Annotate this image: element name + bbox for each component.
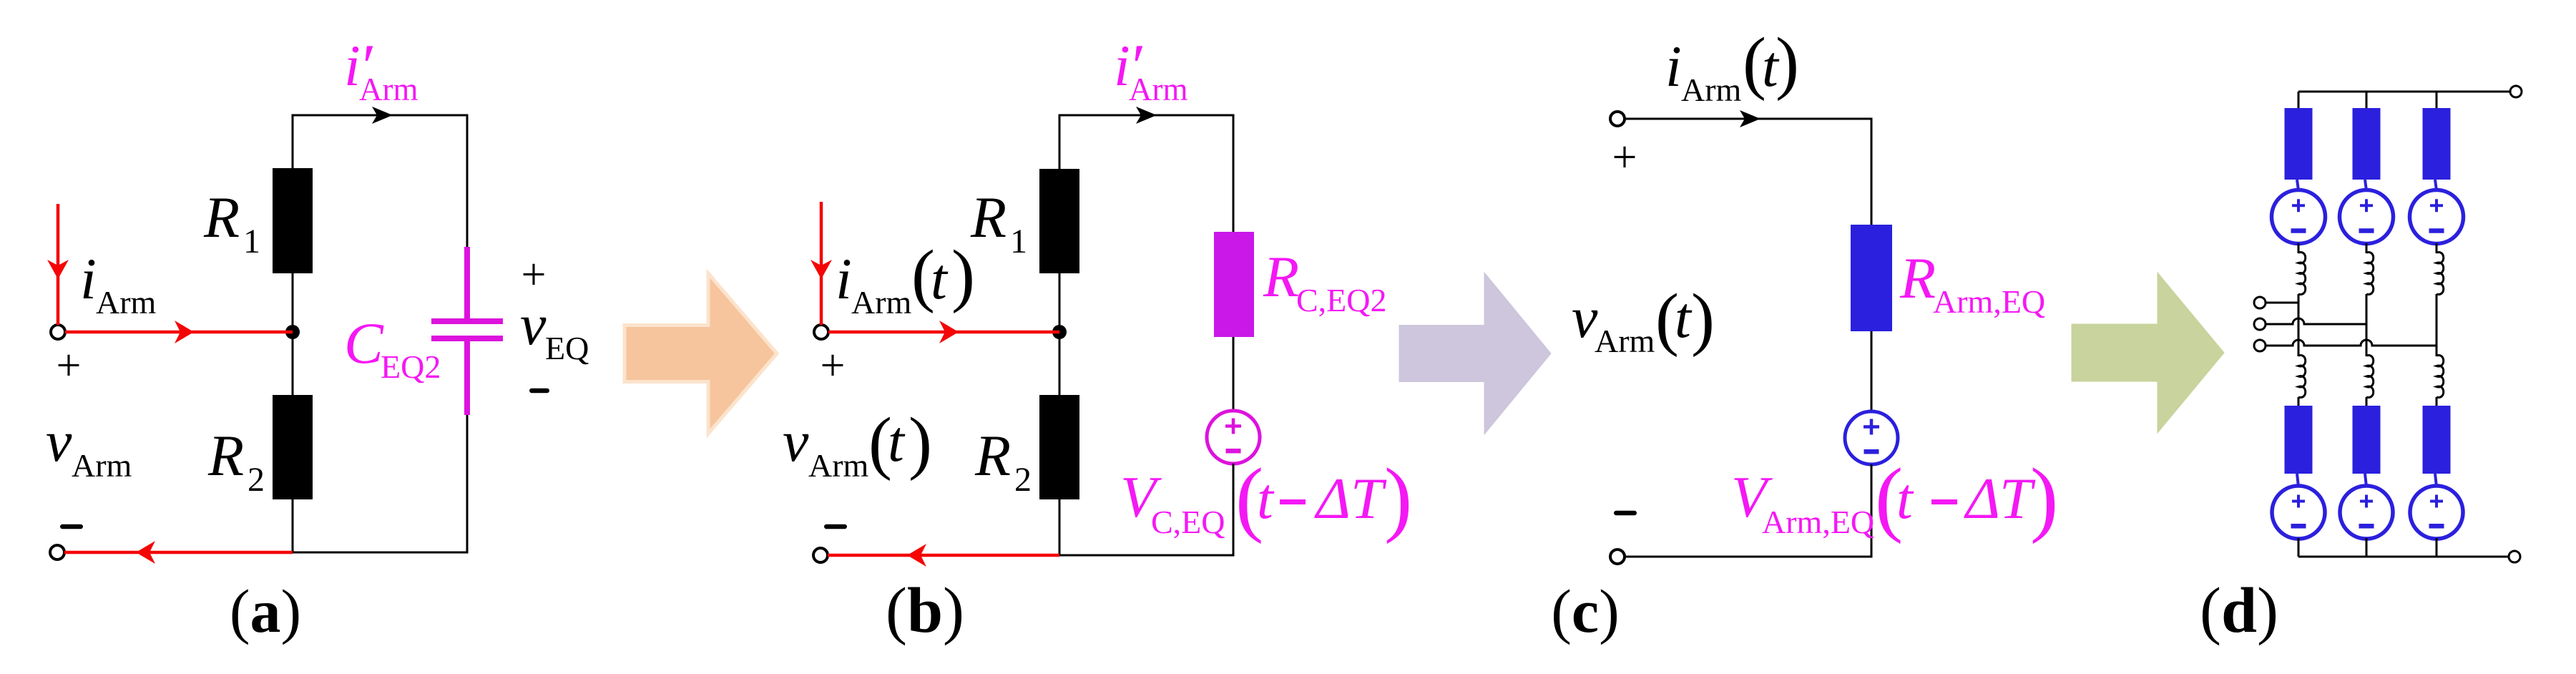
- top wire (c): [1625, 118, 1873, 120]
- terminal input + (c): [1610, 112, 1625, 126]
- label R2 (a): [207, 423, 265, 499]
- SM voltage source lower arm c (d): [2410, 486, 2463, 539]
- svg-text:): ): [2030, 451, 2058, 544]
- svg-text:Arm: Arm: [72, 447, 132, 484]
- wire capacitor branch bottom (a): [466, 415, 469, 552]
- bottom rail (d): [2298, 556, 2509, 558]
- wire right branch top (b): [1233, 115, 1235, 233]
- svg-text:t: t: [931, 246, 949, 311]
- wire source to bottom (b): [1233, 464, 1235, 555]
- wire top horizontal (b): [1059, 114, 1235, 117]
- svg-text:R: R: [974, 423, 1011, 488]
- wire rail to SM rect upper arm b (d): [2366, 92, 2368, 109]
- SM resistor upper arm b (d): [2353, 108, 2381, 180]
- svg-text:Arm,EQ: Arm,EQ: [1933, 283, 2045, 320]
- current arrow i'Arm (b): [1136, 107, 1157, 124]
- wire bottom black (b): [1059, 555, 1235, 557]
- wire coil to SM rect lower arm a (d): [2298, 397, 2300, 406]
- svg-text:(a): (a): [230, 577, 301, 645]
- svg-text:Arm: Arm: [808, 447, 869, 484]
- AC terminal c (d): [2254, 340, 2266, 351]
- label i_Arm (a): [80, 246, 157, 321]
- wire coil to lower section b (d): [2366, 294, 2368, 356]
- wire source to rail lower arm c (d): [2436, 538, 2438, 557]
- terminal input + (b): [814, 325, 828, 339]
- wire top-left vertical (b): [1059, 114, 1061, 170]
- label R1 (b): [970, 185, 1027, 260]
- minus sign vArm (c): [1614, 511, 1637, 516]
- svg-text:+: +: [821, 341, 846, 390]
- green arrow c-to-d: [2072, 273, 2224, 433]
- arm inductor lower c (d): [2437, 356, 2444, 398]
- label VC,EQ(t-dT) (b): [1120, 451, 1412, 544]
- svg-text:R: R: [970, 185, 1007, 250]
- terminal - (b): [813, 548, 828, 562]
- arm inductor lower b (d): [2366, 356, 2374, 398]
- SM resistor upper arm c (d): [2423, 108, 2451, 180]
- svg-text:Arm: Arm: [359, 72, 418, 107]
- wire rect to source upper arm a (d): [2297, 180, 2298, 190]
- wire rail to SM rect upper arm c (d): [2436, 92, 2438, 109]
- svg-text:Arm: Arm: [1595, 323, 1655, 359]
- label i_Arm(t) (b): [836, 236, 975, 321]
- svg-text:Arm: Arm: [96, 284, 157, 321]
- wire source to rail lower arm a (d): [2298, 538, 2300, 557]
- node (a): [285, 325, 300, 339]
- red wire i_Arm input (b): [820, 202, 823, 325]
- red wire to node (b): [828, 331, 1059, 334]
- SM voltage source upper arm b (d): [2340, 190, 2394, 244]
- resistor R1 (a): [273, 168, 313, 273]
- svg-text:1: 1: [1010, 223, 1027, 260]
- svg-text:t: t: [888, 409, 906, 474]
- resistor R1 (b): [1039, 169, 1079, 273]
- svg-text:(d): (d): [2200, 575, 2278, 646]
- label R1 (a): [203, 185, 260, 260]
- label vArm(t) (c): [1572, 280, 1715, 359]
- svg-text:t: t: [1257, 466, 1275, 531]
- AC terminal b (d): [2254, 318, 2266, 330]
- wire R2 to bottom (a): [292, 499, 294, 554]
- wire source to rail lower arm b (d): [2366, 538, 2368, 557]
- wire rect to source (c): [1871, 331, 1873, 412]
- terminal input + (a): [51, 325, 65, 339]
- minus sign vArm (b): [824, 524, 847, 529]
- svg-text:R: R: [1263, 244, 1299, 309]
- wire source to coil upper arm c (d): [2436, 243, 2438, 253]
- wire R2 to bottom (b): [1059, 499, 1061, 557]
- svg-text:i: i: [80, 246, 97, 311]
- top rail (d): [2298, 91, 2510, 93]
- svg-text:C: C: [344, 311, 384, 376]
- bottom wire (c): [1625, 556, 1873, 558]
- label R2 (b): [974, 423, 1032, 499]
- wire capacitor branch top (a): [466, 115, 469, 248]
- svg-text:+: +: [1612, 133, 1637, 182]
- terminal - (c): [1610, 550, 1625, 564]
- node (b): [1052, 325, 1067, 339]
- svg-text:C,EQ: C,EQ: [1151, 504, 1225, 540]
- label iArm(t) (c): [1665, 24, 1799, 108]
- svg-text:+: +: [57, 341, 82, 390]
- svg-text:v: v: [520, 292, 547, 357]
- svg-text:2: 2: [248, 461, 265, 499]
- SM resistor lower arm b (d): [2353, 406, 2381, 474]
- current arrow i'Arm (a): [372, 107, 393, 124]
- current arrow iArm (c): [1740, 110, 1760, 127]
- voltage source VArm,EQ (c): [1845, 411, 1898, 464]
- SM voltage source upper arm c (d): [2410, 190, 2464, 244]
- label i'Arm (a): [344, 32, 418, 107]
- svg-text:t: t: [1896, 466, 1914, 531]
- wire R1 to node to R2 (a): [292, 273, 294, 395]
- minus sign vEQ (a): [529, 389, 549, 394]
- SM voltage source lower arm b (d): [2340, 486, 2393, 539]
- red wire to node (a): [65, 331, 293, 334]
- label RArm,EQ (c): [1899, 245, 2045, 320]
- svg-text:Arm: Arm: [1129, 72, 1188, 107]
- label vEQ (a): [520, 292, 589, 366]
- svg-text:C,EQ2: C,EQ2: [1296, 282, 1387, 318]
- AC terminal a (d): [2254, 297, 2266, 308]
- svg-text:): ): [951, 236, 975, 314]
- svg-text:): ): [1776, 24, 1799, 102]
- label RC,EQ2 (b): [1263, 244, 1387, 318]
- wire rail to SM rect upper arm a (d): [2298, 92, 2300, 109]
- lavender arrow b-to-c: [1399, 273, 1551, 434]
- SM resistor upper arm a (d): [2285, 108, 2313, 180]
- terminal bottom right (d): [2509, 551, 2520, 562]
- orange arrow a-to-b: [625, 273, 777, 434]
- wire rect to source lower arm a (d): [2297, 474, 2298, 487]
- label VArm,EQ(t-dT) (c): [1731, 451, 2058, 544]
- AC wire a (d): [2266, 302, 2298, 304]
- wire coil to lower section c (d): [2436, 294, 2438, 356]
- svg-text:T: T: [1351, 466, 1387, 531]
- svg-text:Arm: Arm: [851, 284, 912, 321]
- svg-text:): ): [1691, 280, 1715, 358]
- svg-text:i: i: [1665, 34, 1682, 99]
- SM resistor lower arm a (d): [2285, 406, 2313, 474]
- svg-text:(b): (b): [886, 575, 964, 646]
- resistor R2 (a): [273, 395, 313, 499]
- red return wire (b): [828, 554, 1059, 557]
- arm inductor upper c (d): [2437, 253, 2444, 295]
- svg-text:t: t: [1675, 285, 1693, 350]
- svg-text:R: R: [1899, 245, 1936, 311]
- svg-text:EQ: EQ: [545, 330, 589, 366]
- svg-text:Δ: Δ: [1964, 466, 2000, 531]
- label CEQ2 (a): [344, 311, 441, 385]
- wire rect to source (b): [1233, 337, 1235, 411]
- wire to RArm,EQ (c): [1871, 119, 1873, 225]
- terminal - (a): [50, 545, 64, 560]
- SM voltage source upper arm a (d): [2272, 190, 2326, 244]
- svg-text:R: R: [207, 423, 244, 488]
- arm inductor upper a (d): [2298, 253, 2306, 295]
- wire bottom black (a): [293, 552, 469, 554]
- wire rect to source lower arm c (d): [2435, 474, 2437, 487]
- wire coil to SM rect lower arm c (d): [2436, 397, 2438, 406]
- wire source to coil upper arm b (d): [2366, 243, 2368, 253]
- terminal top right (d): [2510, 86, 2522, 97]
- svg-text:EQ2: EQ2: [381, 348, 441, 385]
- capacitor CEQ2 (a): [431, 247, 503, 415]
- label vArm (a): [46, 409, 132, 484]
- svg-text:v: v: [783, 409, 809, 474]
- SM voltage source lower arm a (d): [2272, 486, 2325, 539]
- voltage source VC,EQ (b): [1207, 411, 1260, 464]
- label i'Arm (b): [1114, 32, 1188, 107]
- svg-text:Δ: Δ: [1314, 466, 1351, 531]
- svg-text:Arm: Arm: [1681, 72, 1742, 108]
- wire coil to SM rect lower arm b (d): [2366, 397, 2368, 406]
- arm inductor lower a (d): [2298, 356, 2306, 398]
- svg-text:(c): (c): [1551, 577, 1619, 645]
- label vArm(t) (b): [783, 404, 932, 484]
- svg-text:v: v: [46, 409, 72, 474]
- minus sign vArm (a): [60, 524, 83, 529]
- wire rect to source upper arm b (d): [2365, 180, 2366, 190]
- svg-text:i: i: [836, 246, 852, 311]
- resistor RArm,EQ (c): [1851, 225, 1892, 331]
- svg-text:): ): [1384, 451, 1412, 544]
- svg-text:2: 2: [1014, 461, 1032, 499]
- wire top horizontal (a): [292, 114, 469, 117]
- svg-text:R: R: [203, 185, 240, 250]
- AC wire b with hop (d): [2266, 318, 2366, 324]
- wire source to coil upper arm a (d): [2298, 243, 2300, 253]
- wire R1 to node to R2 (b): [1059, 273, 1061, 395]
- wire rect to source lower arm b (d): [2365, 474, 2366, 487]
- svg-text:Arm,EQ: Arm,EQ: [1762, 504, 1874, 540]
- svg-text:1: 1: [243, 223, 260, 260]
- SM resistor lower arm c (d): [2423, 406, 2451, 474]
- wire top-left vertical (a): [292, 114, 294, 170]
- wire source to bottom (c): [1871, 464, 1873, 557]
- resistor R2 (b): [1039, 395, 1079, 499]
- red return wire (a): [64, 551, 293, 555]
- red wire i_Arm input (a): [57, 204, 60, 325]
- wire rect to source upper arm c (d): [2435, 180, 2437, 190]
- resistor RC,EQ2 (b): [1214, 232, 1254, 337]
- wire coil to lower section a (d): [2298, 294, 2300, 356]
- arm inductor upper b (d): [2366, 253, 2374, 295]
- AC wire c with hops (d): [2266, 340, 2437, 346]
- svg-text:): ): [909, 404, 932, 482]
